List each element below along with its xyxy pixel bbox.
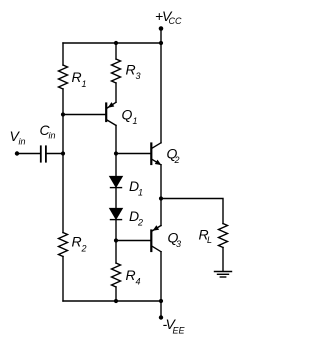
wire second rail top (115, 43, 117, 59)
resistor R2 (59, 233, 87, 257)
wire VCC terminal to top node (160, 29, 162, 44)
transistor Q3 (151, 225, 181, 251)
resistor R4 (112, 263, 141, 287)
wire Q1 collector down (115, 125, 117, 153)
+VCC power terminal (155, 8, 182, 31)
node R1/R2 base junction (61, 112, 65, 116)
wire R3 to Q1 emitter (115, 83, 117, 102)
-VEE power terminal (159, 315, 186, 335)
node output junction (159, 196, 163, 200)
wire Q3 emitter to output node (160, 199, 162, 226)
node bottom-VEE junction (159, 299, 163, 303)
svg-text:EE: EE (173, 326, 186, 336)
node Q3 base junction (114, 238, 118, 242)
wire capacitor to left rail (46, 153, 63, 155)
resistor R3 (112, 59, 141, 83)
wire R4 to bottom rail (115, 287, 117, 301)
wire Q2 collector up to VCC (160, 43, 162, 143)
wire Q3 base (116, 240, 150, 242)
wire Q2 base (116, 153, 150, 155)
wire left rail middle (62, 89, 64, 233)
svg-text:2: 2 (174, 155, 180, 165)
svg-text:3: 3 (136, 71, 141, 81)
svg-text:1: 1 (82, 79, 87, 89)
svg-text:Q: Q (122, 107, 133, 123)
wire Q1 base (63, 114, 105, 116)
node Q2 base junction (114, 151, 118, 155)
svg-text:L: L (207, 235, 212, 245)
wire left rail upper (62, 43, 64, 65)
wire second rail to D1 (115, 154, 117, 178)
resistor RL (199, 224, 228, 248)
diode D2 (110, 208, 143, 228)
node Cin junction (61, 151, 65, 155)
wire D1 to D2 (115, 188, 117, 209)
node bottom-R4 junction (114, 299, 118, 303)
wire left rail lower (62, 257, 64, 302)
diode D1 (110, 177, 143, 198)
svg-text:R: R (126, 267, 136, 283)
wire Q2 emitter to output node (160, 165, 162, 199)
svg-text:4: 4 (136, 277, 141, 287)
node top-VCC junction (159, 41, 163, 45)
svg-text:2: 2 (81, 244, 87, 254)
ground (215, 272, 232, 278)
svg-text:3: 3 (176, 239, 181, 249)
wire bottom node horizontal (63, 300, 161, 302)
wire bottom to VEE terminal (160, 301, 162, 318)
transistor Q2 (151, 143, 179, 165)
svg-text:R: R (126, 62, 136, 78)
transistor Q1 (106, 102, 137, 126)
svg-text:1: 1 (133, 116, 138, 126)
wire Vin to capacitor (17, 153, 40, 155)
svg-text:1: 1 (138, 188, 143, 198)
svg-text:in: in (19, 137, 26, 147)
svg-text:R: R (72, 234, 82, 250)
svg-text:R: R (72, 69, 82, 85)
wire output to RL (161, 199, 223, 224)
wire D2 to R4 (115, 220, 117, 263)
svg-text:CC: CC (169, 16, 182, 26)
node top-R3 junction (114, 41, 118, 45)
resistor R1 (59, 65, 87, 89)
wire Q3 collector to bottom (160, 252, 162, 301)
svg-text:2: 2 (137, 218, 143, 228)
svg-text:in: in (49, 131, 56, 141)
wire top node horizontal (63, 42, 161, 44)
capacitor Cin (40, 122, 56, 162)
wire RL to ground (222, 248, 224, 272)
input terminal Vin (10, 128, 26, 156)
